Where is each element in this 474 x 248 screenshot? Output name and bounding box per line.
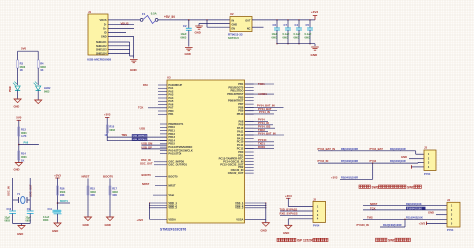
svg-text:USB: USB (140, 127, 146, 131)
svg-text:PC10: PC10 (237, 140, 244, 144)
svg-text:NRST: NRST (142, 182, 150, 186)
svg-text:R16: R16 (60, 186, 65, 190)
svg-text:PY04_IN: PY04_IN (318, 159, 329, 163)
svg-text:R14: R14 (21, 152, 26, 156)
svg-text:VSSA: VSSA (236, 217, 243, 221)
svg-text:U3: U3 (167, 76, 171, 80)
svg-text:1K: 1K (21, 158, 24, 162)
svg-text:NRST: NRST (82, 175, 90, 179)
svg-text:C4: C4 (295, 23, 299, 27)
svg-text:+3V3: +3V3 (331, 175, 338, 179)
svg-text:J2: J2 (313, 197, 316, 201)
svg-text:GND: GND (83, 223, 89, 227)
svg-text:0603: 0603 (294, 36, 300, 40)
svg-text:VBUS: VBUS (100, 19, 107, 22)
svg-text:GND: GND (283, 231, 289, 235)
svg-text:5V0: 5V0 (21, 46, 27, 50)
svg-text:PY04: PY04 (258, 118, 265, 122)
svg-text:R12(0402)100R: R12(0402)100R (383, 223, 402, 227)
svg-text:10K: 10K (60, 193, 65, 197)
svg-text:PA11: PA11 (237, 130, 244, 134)
svg-text:IN: IN (232, 19, 235, 22)
svg-text:R4(0402)10R: R4(0402)10R (390, 147, 406, 151)
svg-text:GND: GND (105, 223, 111, 227)
svg-text:TCK: TCK (138, 106, 143, 110)
svg-text:USB_DP/PA12: USB_DP/PA12 (133, 138, 148, 141)
svg-text:1K: 1K (40, 68, 43, 72)
svg-text:0603: 0603 (272, 36, 278, 40)
svg-text:PA9: PA9 (238, 123, 243, 127)
svg-text:TXD1: TXD1 (258, 82, 265, 86)
svg-text:PY04_BAT: PY04_BAT (370, 147, 384, 151)
svg-text:GND: GND (401, 155, 407, 159)
svg-text:R11(0402)10K: R11(0402)10K (406, 215, 423, 219)
svg-text:D-: D- (104, 24, 107, 27)
svg-text:GND: GND (14, 105, 20, 109)
svg-text:TXD1: TXD1 (258, 141, 265, 145)
svg-text:SHIELD1: SHIELD1 (96, 41, 107, 44)
svg-text:USB-MICRO5008: USB-MICRO5008 (87, 58, 111, 62)
svg-text:OSC_OUT: OSC_OUT (140, 162, 153, 166)
svg-text:PA15/JTDI: PA15/JTDI (168, 152, 181, 156)
svg-text:R4(0402)10R: R4(0402)10R (390, 159, 406, 163)
svg-text:D+: D+ (103, 28, 107, 31)
svg-text:RXD1: RXD1 (258, 145, 266, 149)
svg-text:GND: GND (101, 35, 107, 38)
svg-text:PY04_BAT_IN: PY04_BAT_IN (258, 131, 276, 135)
svg-text:GND: GND (195, 31, 201, 35)
svg-text:R5(0402)100R: R5(0402)100R (341, 175, 358, 179)
svg-text:C7: C7 (284, 23, 288, 27)
svg-text:ID: ID (104, 32, 107, 35)
svg-text:0603: 0603 (43, 219, 49, 222)
svg-text:R8(0402)100R: R8(0402)100R (341, 147, 358, 151)
svg-text:PY04: PY04 (424, 172, 431, 176)
svg-text:PY04: PY04 (447, 228, 454, 232)
svg-text:GND: GND (311, 53, 319, 57)
svg-text:PY040_IN: PY040_IN (357, 223, 369, 227)
svg-text:GND: GND (52, 229, 58, 233)
svg-text:AUXD1: AUXD1 (258, 92, 267, 96)
svg-text:0603: 0603 (283, 36, 289, 40)
svg-text:BOOT0: BOOT0 (168, 175, 178, 179)
svg-text:Vbat: Vbat (168, 193, 174, 197)
svg-text:4.7K: 4.7K (21, 134, 27, 138)
svg-text:STM32F103C8T6: STM32F103C8T6 (160, 227, 186, 231)
svg-text:C10: C10 (7, 208, 12, 211)
svg-text:PY04_IN: PY04_IN (259, 110, 270, 114)
svg-text:J4: J4 (447, 198, 450, 202)
svg-text:PY04_IO2: PY04_IO2 (258, 125, 271, 129)
svg-text:BOOT0: BOOT0 (142, 173, 152, 177)
svg-text:0603: 0603 (181, 35, 187, 39)
svg-text:1K: 1K (20, 68, 23, 72)
svg-text:C2: C2 (183, 24, 187, 28)
svg-text:PY04_BAT_IN: PY04_BAT_IN (318, 147, 336, 151)
svg-text:PWR: PWR (9, 86, 12, 92)
svg-text:OSC32_OUT: OSC32_OUT (228, 171, 244, 175)
svg-text:F1: F1 (142, 12, 146, 16)
svg-text:SHIELD3: SHIELD3 (96, 49, 107, 52)
svg-text:C6: C6 (273, 23, 277, 27)
svg-text:NC: NC (247, 27, 251, 30)
svg-text:VDDA: VDDA (168, 217, 176, 221)
svg-text:SHIELD4: SHIELD4 (96, 52, 107, 55)
svg-text:+3V3: +3V3 (285, 194, 292, 198)
svg-text:R17: R17 (112, 186, 117, 190)
svg-text:PY04C: PY04C (258, 138, 267, 142)
svg-text:BOOT0: BOOT0 (103, 175, 113, 179)
svg-text:PY04_IO: PY04_IO (258, 121, 269, 125)
svg-text:10K: 10K (112, 193, 117, 197)
svg-text:GND: GND (261, 229, 267, 233)
svg-text:ISP 115200: ISP 115200 (297, 239, 314, 243)
svg-text:TMS: TMS (367, 215, 373, 219)
svg-text:PD0: PD0 (238, 150, 244, 154)
svg-text:R7(0402)100R: R7(0402)100R (341, 159, 358, 163)
svg-text:SOT23-5: SOT23-5 (228, 36, 239, 40)
svg-text:NRST: NRST (168, 183, 176, 187)
svg-text:R15: R15 (90, 186, 95, 190)
svg-text:TMS: TMS (121, 133, 127, 137)
svg-text:0603: 0603 (26, 220, 32, 223)
svg-text:+3V3: +3V3 (137, 218, 144, 222)
svg-text:0603: 0603 (305, 36, 311, 40)
svg-text:VSS_3: VSS_3 (235, 206, 244, 210)
svg-text:C11: C11 (48, 208, 53, 211)
svg-text:PB1: PB1 (168, 112, 174, 116)
svg-text:GND: GND (232, 23, 238, 26)
svg-text:+3V3: +3V3 (54, 173, 61, 177)
svg-text:EN: EN (232, 27, 236, 30)
svg-text:PA12: PA12 (237, 133, 244, 137)
svg-text:PA15: PA15 (237, 136, 244, 140)
svg-text:PY04: PY04 (313, 224, 320, 228)
svg-text:+3V3: +3V3 (311, 10, 319, 14)
svg-text:OUT: OUT (245, 19, 251, 22)
svg-text:+5V_IN: +5V_IN (164, 15, 175, 19)
svg-text:GND: GND (14, 168, 20, 172)
svg-text:0603: 0603 (109, 129, 115, 132)
svg-text:R13: R13 (21, 127, 26, 131)
svg-text:TXD2: TXD2 (258, 128, 265, 132)
svg-text:5V0: 5V0 (16, 116, 22, 120)
svg-text:GND: GND (130, 68, 138, 72)
svg-text:VBUS: VBUS (121, 21, 129, 25)
svg-text:0603: 0603 (44, 90, 50, 93)
svg-text:PB10: PB10 (237, 112, 244, 116)
svg-text:PA0: PA0 (143, 83, 148, 87)
svg-text:PA10: PA10 (237, 126, 244, 130)
svg-text:PC12: PC12 (237, 147, 244, 151)
svg-text:10K: 10K (90, 193, 95, 197)
svg-text:C5: C5 (306, 23, 310, 27)
svg-text:OSC_OUT/PD1: OSC_OUT/PD1 (168, 163, 187, 167)
svg-text:U2: U2 (230, 12, 234, 16)
svg-text:J1: J1 (88, 10, 92, 14)
svg-text:RT9013-33: RT9013-33 (228, 32, 243, 36)
svg-text:BOOT1: BOOT1 (60, 201, 69, 203)
svg-text:0.5A: 0.5A (151, 11, 157, 15)
svg-text:OSC_IN: OSC_IN (141, 158, 151, 162)
svg-text:OSC_IN: OSC_IN (7, 186, 11, 196)
svg-text:USB_DM/PA11: USB_DM/PA11 (133, 134, 148, 137)
svg-text:GND: GND (428, 211, 434, 215)
svg-text:SHIELD2: SHIELD2 (96, 45, 107, 48)
svg-text:PA8: PA8 (24, 141, 29, 144)
svg-text:J3: J3 (424, 146, 427, 150)
svg-text:PA8: PA8 (238, 119, 243, 123)
svg-text:PY04_BAT: PY04_BAT (258, 107, 272, 111)
svg-text:+3V3: +3V3 (419, 222, 426, 226)
svg-text:VDD_3: VDD_3 (168, 206, 177, 210)
svg-text:GND: GND (17, 232, 23, 236)
svg-text:GND: GND (185, 52, 191, 56)
svg-text:0603: 0603 (5, 220, 11, 223)
svg-text:PC11: PC11 (237, 143, 244, 147)
svg-text:+3V3: +3V3 (104, 113, 111, 117)
svg-text:1K: 1K (104, 133, 107, 137)
